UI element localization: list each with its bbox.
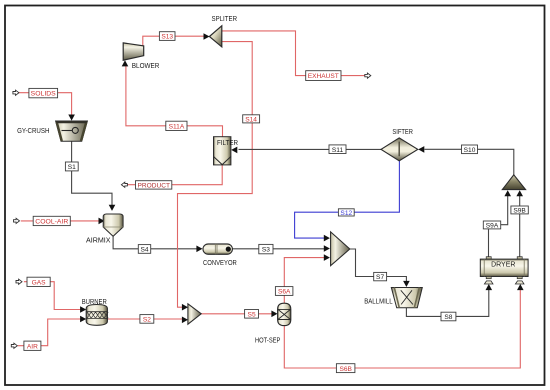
- arrow into HOT-SEP left: [271, 311, 277, 318]
- svg-text:S10: S10: [464, 147, 476, 154]
- wire SOLIDS to GY-CRUSH: [18, 93, 72, 117]
- wire S14 SPLITER to MIXER1: [178, 42, 253, 308]
- wire S7 MIXER2 to BALLMILL: [350, 249, 407, 282]
- stream label S3: [259, 244, 273, 253]
- arrow into MIXER2 upper input: [324, 235, 330, 242]
- wire S8 BALLMILL to DRYER: [406, 289, 488, 317]
- arrow into BALLMILL top: [403, 281, 410, 287]
- wire S10 TRIMIX to SIFTER: [425, 149, 514, 175]
- wire EXHAUST from SPLITER: [222, 31, 365, 76]
- arrow into MIXER1 lower input: [182, 317, 188, 324]
- arrow into MIXER1 upper input: [182, 304, 188, 311]
- arrow into SIFTER right: [418, 146, 424, 153]
- wire S6A HOT-SEP to MIXER2: [284, 258, 324, 303]
- stream label S14: [243, 115, 260, 124]
- label SIFTER: [392, 127, 413, 136]
- svg-text:S11: S11: [332, 147, 344, 154]
- wire S1 crusher to AIRMIX: [72, 141, 112, 205]
- svg-text:S6A: S6A: [278, 289, 291, 296]
- unit SIFTER: [381, 138, 418, 161]
- stream label S6A: [275, 287, 293, 296]
- svg-text:S6B: S6B: [339, 366, 352, 373]
- label BLOWER: [132, 61, 160, 70]
- unit GY-CRUSH crusher: [56, 121, 88, 141]
- arrow into AIRMIX left: [99, 218, 105, 225]
- wire S4 AIRMIX to CONVEYOR: [113, 236, 196, 249]
- arrow into BLOWER bottom: [122, 60, 129, 66]
- wire COOL-AIR to AIRMIX: [21, 220, 100, 222]
- arrow into DRYER bottom right: [517, 284, 524, 290]
- svg-text:AIR: AIR: [27, 343, 38, 350]
- arrow into BURNER lower input: [80, 316, 86, 323]
- unit FILTER: [214, 137, 231, 165]
- stream label S4: [138, 245, 150, 254]
- svg-text:GAS: GAS: [32, 279, 47, 286]
- unit AIRMIX: [103, 214, 123, 236]
- svg-text:S4: S4: [140, 247, 148, 254]
- wire S9B DRYER to TRIMIX: [519, 196, 521, 257]
- wire S13 BLOWER to SPLITER: [143, 36, 204, 46]
- svg-text:SIFTER: SIFTER: [392, 127, 413, 136]
- wire S9A DRYER to TRIMIX: [489, 196, 508, 257]
- svg-text:GY-CRUSH: GY-CRUSH: [17, 126, 49, 135]
- import terminal AIR: [11, 343, 17, 348]
- label CONVEYOR: [203, 258, 237, 267]
- wire S12 SIFTER to MIXER2 (blue): [295, 161, 400, 238]
- svg-text:BALLMILL: BALLMILL: [364, 296, 392, 305]
- unit DRYER: [480, 257, 528, 284]
- stream label S6B: [336, 364, 355, 373]
- svg-text:S1: S1: [68, 164, 76, 171]
- svg-text:S13: S13: [161, 34, 173, 41]
- arrow into TRIMIX bottom left: [504, 190, 511, 196]
- stream label S11A: [166, 121, 187, 130]
- arrow into BURNER upper input: [80, 306, 86, 313]
- unit BURNER: [86, 305, 108, 326]
- arrow into FILTER right: [231, 147, 237, 154]
- wire GAS to BURNER: [24, 282, 81, 310]
- stream label EXHAUST: [306, 71, 341, 81]
- stream label COOL-AIR: [33, 216, 70, 225]
- unit BLOWER: [123, 43, 144, 60]
- label BALLMILL: [364, 296, 392, 305]
- stream label S1: [65, 162, 78, 171]
- svg-text:S14: S14: [245, 116, 257, 123]
- wire S2 BURNER to MIXER1: [108, 318, 183, 320]
- arrow into GY-CRUSH top: [68, 115, 75, 121]
- stream label SOLIDS: [29, 88, 58, 97]
- unit HOT-SEP: [278, 303, 291, 325]
- label FILTER: [217, 138, 238, 147]
- svg-text:EXHAUST: EXHAUST: [308, 73, 339, 80]
- label DRYER: [491, 259, 515, 268]
- unit BALLMILL: [391, 288, 422, 308]
- import terminal SOLIDS: [13, 90, 19, 95]
- wire S3 CONVEYOR to MIXER2: [233, 248, 325, 250]
- stream label S8: [441, 312, 456, 321]
- stream label S7: [374, 272, 387, 281]
- label GY-CRUSH: [17, 126, 49, 135]
- svg-text:COOL-AIR: COOL-AIR: [35, 219, 68, 226]
- svg-text:SPLITER: SPLITER: [212, 14, 238, 23]
- arrow into DRYER bottom left: [486, 284, 493, 290]
- svg-text:PRODUCT: PRODUCT: [138, 183, 171, 190]
- svg-text:S7: S7: [376, 274, 384, 281]
- wire S5 MIXER1 to HOT-SEP: [201, 313, 272, 315]
- svg-text:AIRMIX: AIRMIX: [86, 235, 111, 244]
- label AIRMIX: [86, 235, 111, 244]
- arrow into TRIMIX bottom right: [516, 190, 523, 196]
- svg-text:BURNER: BURNER: [82, 297, 107, 306]
- arrow into MIXER2 middle input: [324, 245, 330, 252]
- arrow into AIRMIX top: [109, 205, 116, 211]
- svg-text:DRYER: DRYER: [491, 259, 515, 268]
- svg-text:FILTER: FILTER: [217, 138, 238, 147]
- stream label S11: [329, 145, 346, 154]
- export terminal EXHAUST: [365, 73, 371, 78]
- stream label PRODUCT: [136, 181, 172, 190]
- unit MIXER1 small mixer: [188, 304, 201, 324]
- stream label S10: [462, 145, 478, 154]
- svg-text:S9A: S9A: [486, 222, 499, 229]
- stream label S9A: [483, 221, 500, 229]
- wire PRODUCT from FILTER: [127, 165, 223, 185]
- stream label AIR: [24, 341, 41, 350]
- stream label S9B: [511, 206, 528, 214]
- label SPLITER: [212, 14, 238, 23]
- svg-text:BLOWER: BLOWER: [132, 61, 160, 70]
- arrow into MIXER2 lower input: [324, 254, 330, 261]
- label BURNER: [82, 297, 107, 306]
- svg-text:S2: S2: [143, 317, 151, 324]
- svg-text:HOT-SEP: HOT-SEP: [255, 335, 281, 344]
- wire AIR to BURNER: [18, 319, 81, 346]
- stream label S13: [159, 32, 175, 41]
- import terminal GAS: [16, 279, 22, 284]
- unit CONVEYOR: [203, 244, 232, 254]
- unit SPLITER: [209, 26, 221, 47]
- svg-text:S5: S5: [248, 311, 256, 318]
- wire S6B HOT-SEP to DRYER: [284, 289, 520, 368]
- stream label GAS: [27, 277, 50, 286]
- import terminal COOL-AIR: [14, 218, 20, 223]
- wire S11A FILTER to BLOWER: [126, 66, 223, 137]
- stream label S2: [140, 315, 154, 324]
- stream label S12: [338, 209, 354, 217]
- svg-text:S11A: S11A: [169, 123, 185, 130]
- svg-text:SOLIDS: SOLIDS: [31, 91, 57, 98]
- wire S11 SIFTER to FILTER: [239, 148, 382, 150]
- unit MIXER2 big mixer: [331, 232, 350, 266]
- label HOT-SEP: [255, 335, 281, 344]
- arrow into CONVEYOR left: [196, 246, 202, 253]
- stream label S5: [245, 310, 259, 319]
- arrow into SPLITER apex: [204, 33, 210, 40]
- svg-text:S9B: S9B: [513, 207, 526, 214]
- unit TRIMIX up triangle: [502, 175, 525, 190]
- export terminal PRODUCT: [121, 182, 127, 187]
- svg-text:S12: S12: [340, 210, 352, 217]
- svg-text:S3: S3: [262, 247, 270, 254]
- svg-text:S8: S8: [444, 314, 452, 321]
- svg-text:CONVEYOR: CONVEYOR: [203, 258, 237, 267]
